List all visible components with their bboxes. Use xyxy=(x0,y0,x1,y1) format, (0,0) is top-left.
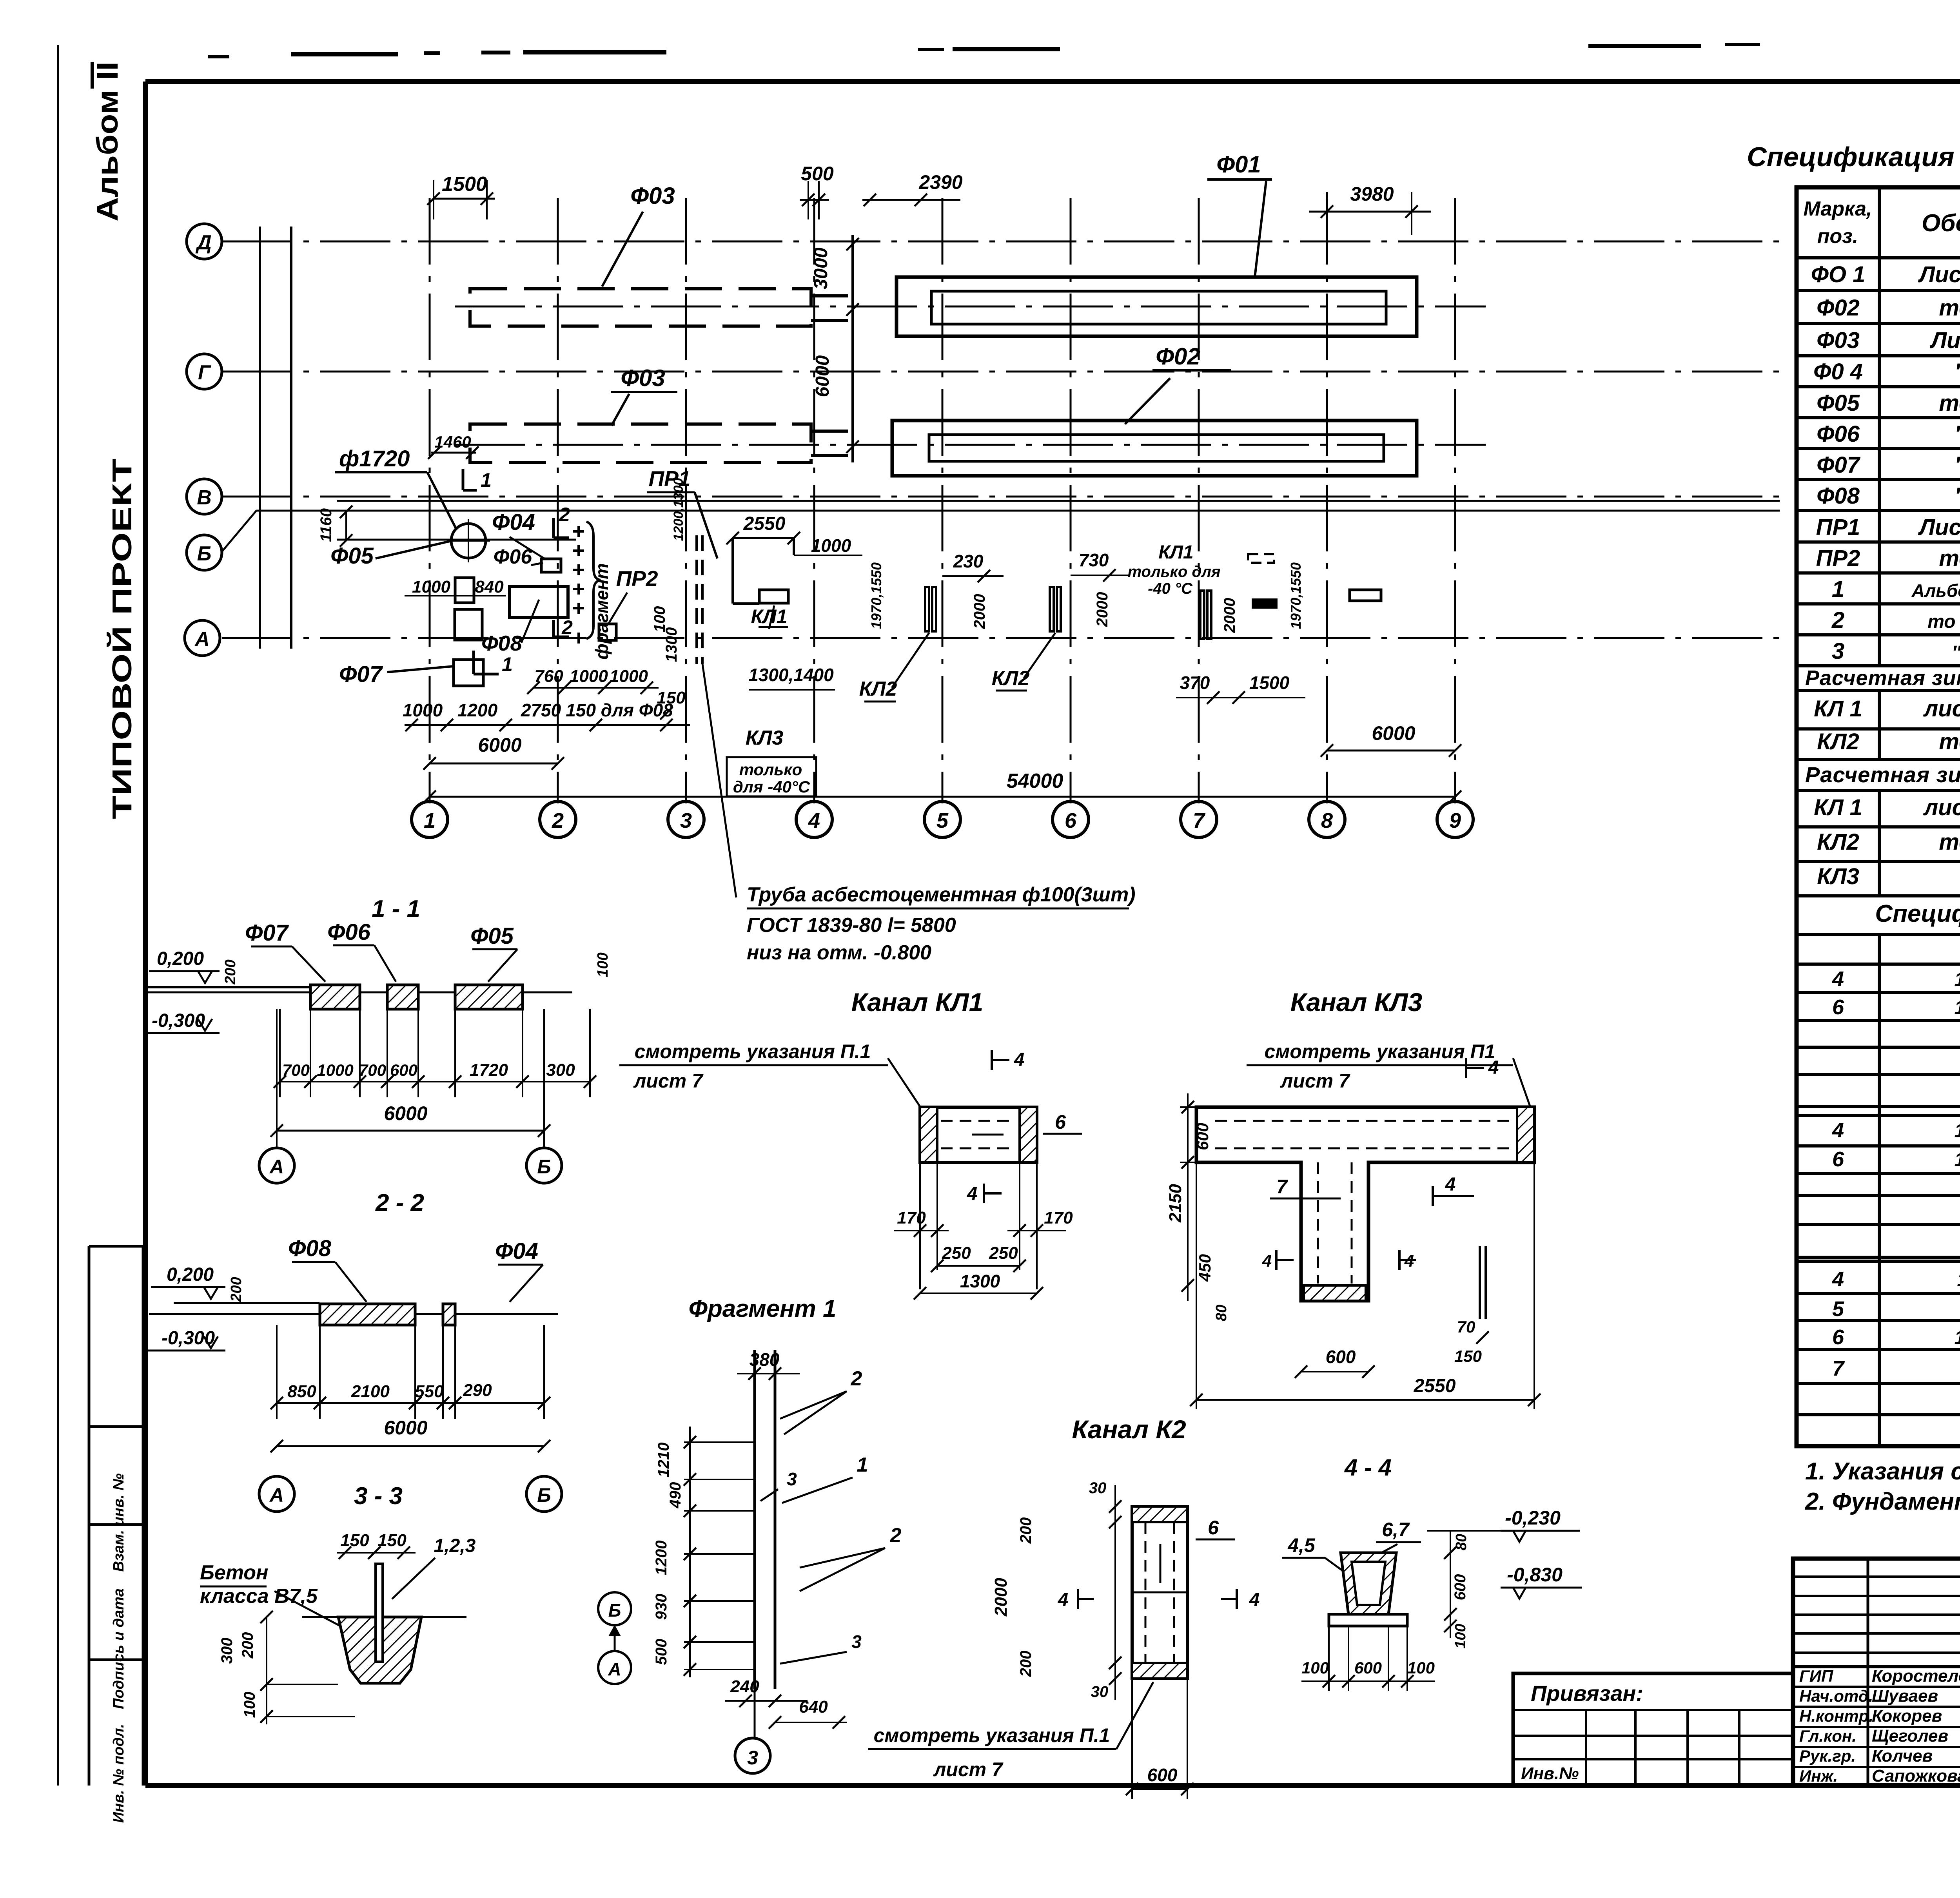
section 3-3 pit xyxy=(338,1617,421,1683)
svg-text:4: 4 xyxy=(1262,1251,1272,1271)
svg-text:1000: 1000 xyxy=(403,700,443,720)
axis B diagonal leader xyxy=(221,511,256,553)
svg-text:2750: 2750 xyxy=(521,700,561,720)
svg-text:Инв.№: Инв.№ xyxy=(1521,1764,1579,1783)
svg-text:6: 6 xyxy=(1832,995,1844,1019)
svg-text:150: 150 xyxy=(377,1531,407,1550)
svg-text:6: 6 xyxy=(1055,1111,1066,1133)
svg-text:300: 300 xyxy=(546,1060,575,1080)
svg-text:200: 200 xyxy=(228,1277,245,1302)
svg-text:″: ″ xyxy=(1955,421,1960,447)
svg-text:6: 6 xyxy=(1832,1148,1844,1171)
section 1-1 foundation F05 hatched xyxy=(455,985,523,1009)
svg-text:300: 300 xyxy=(218,1638,236,1664)
axis A line xyxy=(222,637,1780,639)
svg-text:смотреть указания П.1: смотреть указания П.1 xyxy=(874,1724,1110,1746)
svg-text:то же: то же xyxy=(1939,829,1960,855)
svg-text:А: А xyxy=(269,1484,284,1506)
svg-text:Ф02: Ф02 xyxy=(1156,343,1200,370)
axis D line xyxy=(222,241,1780,243)
band2 centerline xyxy=(455,444,1486,446)
svg-text:490: 490 xyxy=(667,1482,684,1509)
section 1-1 ground line xyxy=(145,986,361,988)
svg-text:Ф08: Ф08 xyxy=(288,1236,332,1261)
fragment 1 tick rows xyxy=(684,1441,755,1443)
svg-text:700: 700 xyxy=(359,1061,386,1079)
vertical dim 3000 6000 between bands xyxy=(851,235,854,462)
svg-text:″: ″ xyxy=(1955,483,1960,509)
small rect F04-F06 target xyxy=(541,559,561,572)
kanal K2 section body xyxy=(1132,1506,1187,1679)
svg-text:54000: 54000 xyxy=(1007,770,1063,792)
svg-text:70: 70 xyxy=(1457,1318,1475,1336)
svg-text:200: 200 xyxy=(1017,1517,1034,1544)
svg-text:КЛ3: КЛ3 xyxy=(1817,864,1859,889)
axis B line xyxy=(256,510,1780,512)
fragment 1 axis circles xyxy=(598,1592,631,1625)
svg-text:6: 6 xyxy=(1832,1325,1844,1349)
svg-text:1,2,3: 1,2,3 xyxy=(434,1535,476,1556)
svg-text:Щеголев: Щеголев xyxy=(1872,1726,1948,1746)
svg-text:600: 600 xyxy=(1147,1765,1178,1785)
svg-text:Ф05: Ф05 xyxy=(470,923,514,949)
spec table outer frame xyxy=(1797,187,1960,1446)
section 3-3 pipe xyxy=(376,1564,383,1662)
svg-text:100: 100 xyxy=(1452,1624,1469,1648)
svg-text:ФО 1: ФО 1 xyxy=(1811,262,1866,287)
svg-text:Ф04: Ф04 xyxy=(495,1238,538,1264)
foundation strip F02 inner xyxy=(929,435,1384,461)
svg-text:170: 170 xyxy=(1044,1208,1073,1227)
svg-text:200: 200 xyxy=(239,1632,256,1659)
svg-text:Колчев: Колчев xyxy=(1872,1746,1933,1766)
svg-text:Ф06: Ф06 xyxy=(1817,421,1860,447)
svg-text:3: 3 xyxy=(680,809,692,832)
svg-text:1000: 1000 xyxy=(570,667,608,686)
title block row line 4253 xyxy=(1793,1665,1960,1668)
svg-text:1: 1 xyxy=(1832,576,1844,602)
svg-text:1000: 1000 xyxy=(610,667,648,686)
svg-text:600: 600 xyxy=(1354,1659,1382,1677)
svg-text:1.219.1 - 3: 1.219.1 - 3 xyxy=(1954,968,1960,990)
svg-text:500: 500 xyxy=(653,1639,670,1665)
svg-text:поз.: поз. xyxy=(1817,225,1858,248)
svg-text:250: 250 xyxy=(942,1244,971,1263)
svg-text:850: 850 xyxy=(287,1382,316,1401)
svg-text:только для: только для xyxy=(1127,563,1220,580)
svg-text:230: 230 xyxy=(953,551,984,571)
spec table vertical lines xyxy=(1878,187,1881,666)
svg-text:6000: 6000 xyxy=(812,355,833,397)
svg-text:лист 7: лист 7 xyxy=(1280,1070,1350,1092)
foundation strip F03 dashed band1 xyxy=(470,289,811,326)
svg-text:6: 6 xyxy=(1208,1517,1219,1539)
small rect 1000-840 xyxy=(455,578,474,603)
svg-text:А: А xyxy=(608,1659,621,1679)
svg-text:2: 2 xyxy=(851,1367,862,1390)
svg-text:5: 5 xyxy=(936,809,949,832)
svg-text:-40 °С: -40 °С xyxy=(1148,580,1193,597)
main frame xyxy=(145,79,1960,84)
svg-text:600: 600 xyxy=(390,1061,417,1079)
svg-text:-0,300: -0,300 xyxy=(162,1328,215,1349)
svg-text:Б: Б xyxy=(537,1484,551,1506)
svg-text:то же КЖ.Н.004: то же КЖ.Н.004 xyxy=(1927,611,1960,632)
svg-text:1970,1550: 1970,1550 xyxy=(1288,562,1304,629)
svg-text:Шуваев: Шуваев xyxy=(1872,1686,1938,1706)
svg-text:2550: 2550 xyxy=(743,513,786,534)
svg-text:2. Фундаменты под здание ус: 2. Фундаменты под здание условно не пока… xyxy=(1805,1488,1960,1515)
svg-text:150 для Ф08: 150 для Ф08 xyxy=(566,700,673,720)
kanal KL3 right bars xyxy=(1479,1246,1481,1319)
svg-text:1 - 1: 1 - 1 xyxy=(372,896,420,923)
dim 2390 top xyxy=(862,199,960,201)
svg-text:2: 2 xyxy=(559,504,570,526)
section 2-2 foundation F08 hatched xyxy=(320,1304,415,1325)
svg-text:4: 4 xyxy=(967,1184,978,1204)
svg-text:КЛ 1: КЛ 1 xyxy=(1814,696,1862,721)
svg-text:1: 1 xyxy=(481,469,492,491)
svg-text:-0,830: -0,830 xyxy=(1507,1564,1563,1586)
small rect PR2 target xyxy=(599,624,616,640)
svg-text:Инв. № подл.: Инв. № подл. xyxy=(111,1724,127,1823)
svg-text:640: 640 xyxy=(799,1697,828,1717)
svg-text:1.243.1 · 4: 1.243.1 · 4 xyxy=(1954,997,1960,1019)
svg-text:лист 7: лист 7 xyxy=(633,1070,704,1092)
svg-text:380: 380 xyxy=(750,1349,780,1370)
svg-text:2: 2 xyxy=(561,616,573,638)
svg-text:1300,1400: 1300,1400 xyxy=(748,665,834,685)
svg-text:7: 7 xyxy=(1276,1176,1288,1198)
svg-text:Б: Б xyxy=(197,542,212,565)
svg-text:3: 3 xyxy=(851,1632,862,1652)
svg-text:-0,230: -0,230 xyxy=(1505,1507,1561,1529)
svg-text:лист 6: лист 6 xyxy=(1923,696,1960,721)
svg-text:ПР2: ПР2 xyxy=(1816,546,1860,571)
svg-text:то же: то же xyxy=(1939,729,1960,754)
svg-text:Кокорев: Кокорев xyxy=(1872,1706,1942,1726)
svg-text:600: 600 xyxy=(1452,1574,1469,1601)
svg-text:лист 6: лист 6 xyxy=(1923,795,1960,820)
svg-text:150: 150 xyxy=(1454,1347,1482,1365)
svg-text:КЛ1: КЛ1 xyxy=(751,605,788,627)
svg-text:2000: 2000 xyxy=(991,1578,1011,1617)
svg-text:1. Указания смотреть на лист: 1. Указания смотреть на листе 7. xyxy=(1805,1458,1960,1485)
svg-text:Спецификация элементов на к: Спецификация элементов на каналы КЛ1 ÷ К… xyxy=(1875,900,1960,927)
svg-text:Ф02: Ф02 xyxy=(1817,295,1860,321)
svg-text:1: 1 xyxy=(502,653,513,675)
svg-text:1000: 1000 xyxy=(317,1061,353,1079)
svg-text:″: ″ xyxy=(1955,452,1960,478)
band1 centerline xyxy=(455,306,1486,308)
fragment 1 wall lines xyxy=(753,1350,756,1689)
kanal KL1 cut mark 4 top xyxy=(991,1050,993,1070)
svg-text:2390: 2390 xyxy=(918,171,962,193)
svg-text:Сапожкова: Сапожкова xyxy=(1872,1766,1960,1786)
svg-text:Расчетная зимняя температура: Расчетная зимняя температура наружного в… xyxy=(1805,762,1960,787)
svg-text:6000: 6000 xyxy=(384,1417,427,1439)
svg-text:30: 30 xyxy=(1091,1683,1109,1700)
svg-text:600: 600 xyxy=(1326,1347,1356,1367)
svg-text:КЛ2: КЛ2 xyxy=(1817,729,1859,754)
svg-text:Ф04: Ф04 xyxy=(492,509,535,535)
svg-text:А: А xyxy=(194,628,210,651)
axis circle V xyxy=(187,479,222,514)
svg-text:4: 4 xyxy=(1832,1267,1844,1291)
svg-text:730: 730 xyxy=(1079,550,1109,570)
svg-text:Спецификация элементов фунда: Спецификация элементов фундаментов под о… xyxy=(1747,141,1960,172)
svg-text:″ КЖ.Н.004: ″ КЖ.Н.004 xyxy=(1952,642,1960,663)
svg-text:низ на отм. -0.800: низ на отм. -0.800 xyxy=(747,941,931,964)
svg-text:9: 9 xyxy=(1449,809,1461,832)
privyazan block xyxy=(1513,1673,1793,1786)
title block signature rows xyxy=(1793,1686,1960,1688)
axis V line xyxy=(222,496,1780,498)
section 2-2 axis circles xyxy=(259,1476,294,1512)
svg-text:Взам. инв. №: Взам. инв. № xyxy=(111,1474,127,1572)
svg-text:Расчетная зимняя температура: Расчетная зимняя температура наружного в… xyxy=(1805,666,1960,690)
svg-text:0,200: 0,200 xyxy=(157,948,204,969)
dashed bar right xyxy=(1248,554,1274,563)
svg-text:КЛ2: КЛ2 xyxy=(992,667,1030,690)
svg-text:Альбом Ш,КЖ.Н.004: Альбом Ш,КЖ.Н.004 xyxy=(1911,580,1960,601)
svg-text:Лист 7: Лист 7 xyxy=(1918,262,1960,287)
section 2-2 dim verticals xyxy=(276,1325,278,1419)
svg-text:Н.контр.: Н.контр. xyxy=(1799,1707,1873,1725)
section 1-1 axis circles xyxy=(259,1148,294,1183)
section 4-4 right dims xyxy=(1450,1531,1451,1638)
svg-text:Б: Б xyxy=(537,1156,551,1178)
svg-text:7: 7 xyxy=(1193,809,1206,832)
foundation strip F01 inner xyxy=(931,291,1386,324)
svg-text:смотреть указания П1: смотреть указания П1 xyxy=(1265,1041,1495,1062)
svg-text:Канал КЛ1: Канал КЛ1 xyxy=(851,988,984,1017)
svg-text:1000: 1000 xyxy=(811,535,851,556)
foundation strip F01 outer xyxy=(897,277,1417,336)
section 1-1 foundation F06 hatched xyxy=(387,985,418,1009)
svg-text:то же: то же xyxy=(1939,546,1960,571)
kanal KL3 inner corner lines xyxy=(1195,1107,1198,1162)
svg-text:то же: то же xyxy=(1939,390,1960,416)
svg-text:Ф03: Ф03 xyxy=(630,183,675,209)
svg-text:только: только xyxy=(739,760,802,779)
svg-text:1: 1 xyxy=(857,1454,868,1476)
svg-text:2550: 2550 xyxy=(1414,1376,1456,1396)
svg-text:Г: Г xyxy=(198,361,211,384)
strip band2 dashed end step xyxy=(811,430,851,433)
svg-text:1200: 1200 xyxy=(457,700,498,720)
svg-text:А: А xyxy=(269,1156,284,1178)
svg-text:30: 30 xyxy=(1089,1479,1107,1497)
svg-text:Фрагмент 1: Фрагмент 1 xyxy=(689,1295,837,1322)
svg-text:80: 80 xyxy=(1453,1534,1470,1550)
sleeve pair col5 xyxy=(925,587,929,631)
kanal KL3 section body xyxy=(1196,1107,1534,1301)
svg-text:ф1720: ф1720 xyxy=(339,446,410,471)
svg-text:Лист 8: Лист 8 xyxy=(1929,328,1960,353)
svg-text:370: 370 xyxy=(1180,673,1210,693)
svg-text:смотреть указания П.1: смотреть указания П.1 xyxy=(635,1041,871,1062)
svg-text:″: ″ xyxy=(1955,359,1960,384)
svg-text:ТИПОВОЙ ПРОЕКТ: ТИПОВОЙ ПРОЕКТ xyxy=(106,459,137,819)
svg-text:100: 100 xyxy=(1407,1659,1435,1677)
svg-text:4: 4 xyxy=(1832,1118,1844,1142)
svg-text:КЛ1: КЛ1 xyxy=(1158,542,1193,563)
svg-text:лист 7: лист 7 xyxy=(933,1758,1004,1780)
svg-text:ГОСТ 1839-80 l= 5800: ГОСТ 1839-80 l= 5800 xyxy=(747,914,956,937)
svg-text:2: 2 xyxy=(1831,607,1844,633)
svg-text:4: 4 xyxy=(808,809,820,832)
svg-text:1.243.1 - 4: 1.243.1 - 4 xyxy=(1954,1149,1960,1171)
svg-text:Ф0 4: Ф0 4 xyxy=(1813,359,1863,384)
fragment 1 column circle 3 xyxy=(735,1738,770,1773)
svg-text:600: 600 xyxy=(1193,1123,1212,1150)
svg-text:700: 700 xyxy=(282,1061,310,1079)
svg-text:4: 4 xyxy=(1832,967,1844,991)
title block frame xyxy=(1793,1559,1960,1786)
svg-text:290: 290 xyxy=(463,1381,492,1400)
svg-text:1720: 1720 xyxy=(470,1060,508,1080)
svg-text:170: 170 xyxy=(897,1208,926,1227)
section 4-4 base plate xyxy=(1329,1614,1407,1626)
svg-text:ГИП: ГИП xyxy=(1799,1667,1833,1685)
svg-text:4: 4 xyxy=(1058,1590,1069,1610)
svg-text:1500: 1500 xyxy=(1249,673,1290,693)
svg-text:для -40°С: для -40°С xyxy=(733,778,810,796)
sheet edge line left xyxy=(57,45,59,1786)
section 4-4 cup body xyxy=(1341,1553,1396,1614)
left stamp strip xyxy=(88,1246,91,1786)
svg-text:Ф03: Ф03 xyxy=(621,365,665,391)
small rect below F07 xyxy=(454,660,483,686)
svg-text:ПР1: ПР1 xyxy=(1816,515,1860,540)
svg-text:6,7: 6,7 xyxy=(1382,1519,1410,1541)
section 1-1 foundation F07 hatched xyxy=(310,985,360,1009)
svg-text:Ф07: Ф07 xyxy=(245,920,289,946)
svg-text:Лист 7: Лист 7 xyxy=(1918,515,1960,540)
svg-text:2000: 2000 xyxy=(1221,598,1238,633)
svg-text:7: 7 xyxy=(1832,1357,1845,1380)
svg-text:Ф06: Ф06 xyxy=(327,919,371,945)
svg-text:3: 3 xyxy=(787,1469,797,1489)
column axis lines 1-9 xyxy=(429,198,431,803)
kanal KL3 cut mark 4 top xyxy=(1465,1058,1467,1078)
svg-text:450: 450 xyxy=(1196,1254,1214,1282)
title block upper small rows xyxy=(1793,1575,1960,1578)
axis G line xyxy=(222,371,1780,373)
svg-text:550: 550 xyxy=(415,1382,444,1401)
svg-text:100: 100 xyxy=(651,606,668,633)
svg-text:КЛ2: КЛ2 xyxy=(1817,829,1859,855)
svg-text:80: 80 xyxy=(1213,1305,1230,1321)
svg-text:то же: то же xyxy=(1939,295,1960,321)
svg-text:2: 2 xyxy=(890,1524,902,1547)
section mark 1 upper xyxy=(462,469,465,490)
title block verticals left part xyxy=(1867,1559,1869,1786)
svg-text:Ф03: Ф03 xyxy=(1817,328,1860,353)
svg-text:930: 930 xyxy=(653,1594,670,1620)
svg-text:6000: 6000 xyxy=(1372,722,1415,744)
axis circle B xyxy=(187,535,222,570)
svg-text:Подпись и дата: Подпись и дата xyxy=(111,1588,127,1709)
svg-text:1: 1 xyxy=(424,809,436,832)
foundation F08 rect xyxy=(510,586,568,618)
svg-text:Ф06: Ф06 xyxy=(494,546,533,568)
svg-text:Канал КЛ3: Канал КЛ3 xyxy=(1290,988,1423,1017)
svg-text:4: 4 xyxy=(1404,1251,1414,1271)
KL1 plan rect xyxy=(759,590,788,603)
svg-text:3980: 3980 xyxy=(1350,183,1394,205)
svg-text:Ф07: Ф07 xyxy=(1817,452,1861,478)
svg-text:1500: 1500 xyxy=(442,173,487,196)
svg-text:3000: 3000 xyxy=(811,247,831,289)
svg-text:Ф05: Ф05 xyxy=(330,543,374,569)
svg-text:100: 100 xyxy=(595,952,611,977)
svg-text:5: 5 xyxy=(1832,1297,1844,1321)
fragment 1 left dim chain xyxy=(689,1427,691,1677)
svg-text:2150: 2150 xyxy=(1166,1184,1185,1223)
svg-text:Ф07: Ф07 xyxy=(339,662,383,687)
column circles 1-9 xyxy=(412,801,448,838)
kanal KL3 cut marks 4 lower xyxy=(1275,1250,1278,1270)
section 3-3 left dims xyxy=(266,1617,267,1724)
svg-text:4: 4 xyxy=(1014,1050,1025,1070)
svg-text:6: 6 xyxy=(1065,809,1077,832)
section mark 1 lower xyxy=(472,651,475,674)
svg-text:1160: 1160 xyxy=(318,508,335,542)
svg-text:Инж.: Инж. xyxy=(1799,1767,1838,1785)
svg-text:1300: 1300 xyxy=(960,1271,1000,1291)
svg-text:6000: 6000 xyxy=(384,1102,427,1124)
dim 3980 top xyxy=(1309,211,1431,213)
scan dashes top xyxy=(208,55,229,58)
sleeve pair col6 xyxy=(1050,587,1054,631)
svg-text:2100: 2100 xyxy=(351,1382,390,1401)
svg-text:Ф08: Ф08 xyxy=(1817,483,1860,509)
kanal KL1 dim verticals xyxy=(936,1162,938,1270)
svg-text:Обозначение: Обозначение xyxy=(1922,210,1960,237)
svg-text:Ф05: Ф05 xyxy=(1817,390,1860,416)
svg-text:4: 4 xyxy=(1488,1057,1499,1078)
section 3-3 ground lines xyxy=(302,1616,338,1618)
svg-text:Марка,: Марка, xyxy=(1804,198,1872,220)
svg-text:Привязан:: Привязан: xyxy=(1531,1681,1643,1706)
kanal KL1 cut mark 4 bottom xyxy=(983,1184,985,1203)
svg-text:Коростелев: Коростелев xyxy=(1872,1666,1960,1686)
svg-text:4,5: 4,5 xyxy=(1287,1534,1316,1556)
svg-text:1000: 1000 xyxy=(412,577,450,596)
svg-text:200: 200 xyxy=(222,959,239,984)
svg-text:4: 4 xyxy=(1249,1590,1260,1610)
svg-text:2000: 2000 xyxy=(971,594,988,629)
strip band1 dashed end step xyxy=(811,294,851,297)
svg-text:1200,1300: 1200,1300 xyxy=(671,478,686,541)
svg-text:-0,300: -0,300 xyxy=(152,1010,205,1031)
svg-text:Гл.кон.: Гл.кон. xyxy=(1799,1727,1857,1745)
foundation strip F02 outer xyxy=(892,421,1417,476)
svg-text:В: В xyxy=(197,486,212,509)
truba leader line xyxy=(702,664,736,897)
svg-text:Ф08: Ф08 xyxy=(481,631,523,655)
svg-text:8: 8 xyxy=(1321,809,1333,832)
svg-text:Канал К2: Канал К2 xyxy=(1072,1415,1186,1444)
sleeve right col8 xyxy=(1350,590,1381,601)
svg-text:1970,1550: 1970,1550 xyxy=(868,562,884,629)
svg-text:Труба асбестоцементная ф100(3ш: Труба асбестоцементная ф100(3шт) xyxy=(747,883,1136,906)
svg-text:3 - 3: 3 - 3 xyxy=(354,1483,403,1510)
kanal K2 cut marks 4 xyxy=(1077,1589,1079,1609)
section 2-2 foundation F04 hatched xyxy=(443,1304,455,1325)
